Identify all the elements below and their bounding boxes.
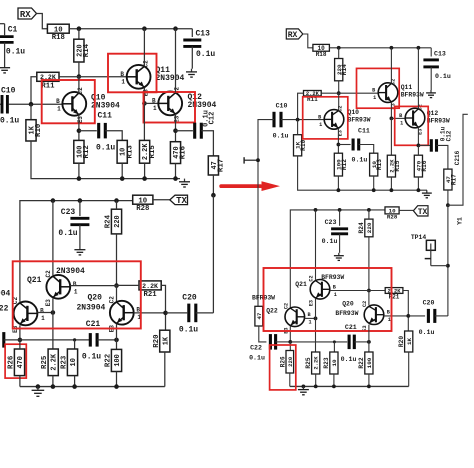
wire R25 bottom right [315,374,317,386]
resistor R13 10 right [370,153,384,176]
svg-text:1: 1 [121,78,125,85]
wire C13 ground right [430,67,432,90]
wire top rail right [329,47,431,49]
wire Q12 base right [391,117,405,119]
resistor R22 100 right [358,352,373,374]
capacitor C21 [90,333,97,347]
wire Q21 base right [330,290,369,292]
svg-text:C23: C23 [325,219,337,226]
svg-text:0.1u: 0.1u [179,326,198,335]
svg-text:C2: C2 [362,301,368,307]
junction C23 rail right [338,208,342,212]
svg-text:B: B [120,71,124,78]
svg-text:B: B [333,284,336,290]
label Q20 part [77,304,106,313]
junction TP14 node [446,264,450,268]
svg-text:C2: C2 [77,87,84,95]
svg-text:R23: R23 [323,357,330,368]
resistor R17 47 right [444,169,458,190]
svg-text:1K: 1K [406,338,413,346]
label Q21 part [56,267,85,276]
svg-text:1: 1 [309,319,312,325]
label C11 value [96,144,115,153]
wire Q20 base [134,312,166,314]
resistor R20 1K right [398,331,413,352]
svg-text:10: 10 [138,197,147,205]
svg-text:0.1u: 0.1u [419,329,435,336]
label C10 [1,87,16,96]
wire Q21 collector [52,201,54,276]
resistor R16 470 [170,142,187,164]
label Q10 right [348,109,360,116]
wire Q10 collector [78,77,80,93]
junction R23 bottom [72,384,77,389]
wire R24 top [116,201,118,210]
junction R12 gnd [77,176,82,181]
svg-text:RX: RX [20,10,31,20]
svg-text:1: 1 [57,105,61,112]
wire R26 column right [289,342,291,351]
resistor R26 470 [8,349,25,376]
svg-text:C22: C22 [250,345,262,352]
junction Q21 rail right [314,208,318,212]
label C11 right [358,128,370,135]
capacitor C10 right [274,112,281,128]
label Q11 part [156,74,185,83]
label C13 right [434,51,446,58]
svg-text:TX: TX [176,196,187,206]
transistor Q22 2N3904 [12,297,45,333]
wire Q12 collector right [417,48,419,109]
transistor Q21 BFR93W [309,275,337,306]
label C12 rotated [209,112,217,125]
svg-text:10: 10 [331,359,338,367]
red box Q12 right [395,106,429,145]
wire R24 top right [368,210,370,219]
svg-text:2.2K: 2.2K [313,356,320,370]
transistor Q22 BFR93W [283,303,311,334]
svg-text:R13: R13 [376,159,383,170]
svg-text:C2: C2 [109,296,116,304]
wire Q20 base right [384,315,409,317]
svg-text:R24: R24 [105,214,113,228]
svg-text:0.1u: 0.1u [0,117,19,126]
svg-text:B: B [40,307,44,314]
wire R22 bottom right [368,374,370,386]
label Q22 part clipped [0,290,11,299]
svg-text:E3: E3 [309,300,315,306]
wire R25 bottom [52,376,54,387]
svg-text:R22: R22 [105,354,113,367]
capacitor C23 [79,201,81,216]
svg-text:R12: R12 [341,159,348,170]
svg-text:C2: C2 [174,87,181,95]
wire C20 right side [435,315,448,317]
junction Q21 emitter node [51,310,56,315]
resistor R12 100 [74,140,91,163]
capacitor C22 clipped [0,332,4,348]
label C11 value right [352,157,368,164]
svg-text:R22: R22 [358,357,365,368]
resistor R15 2.2K right [387,155,401,177]
label C13 value right [435,73,451,80]
wire Q11 collector right [390,48,392,84]
wire R14 bottom right [338,81,340,93]
label C23 value [58,229,77,238]
capacitor C11 right [338,144,350,146]
label C13 value [196,50,215,59]
svg-text:47: 47 [256,312,263,320]
wire mid row right [290,341,347,343]
wire R12 gnd right [337,176,339,190]
svg-text:C21: C21 [345,324,357,331]
junction R23 tap right [333,340,336,343]
wire R21 left right [369,290,385,292]
label Q10 [91,94,106,103]
wire R26 bottom [19,376,21,387]
junction Q11 rail right [390,46,394,50]
svg-text:B: B [387,310,390,316]
junction output node [211,193,216,198]
label C1 value [6,48,25,57]
red box Q10 [42,80,95,123]
wire Q22 emitter [19,325,21,340]
wire Q12 collector [175,29,177,93]
wire R24 to node [116,234,118,286]
svg-text:220: 220 [114,215,122,227]
capacitor C10 [0,103,1,105]
label Q12 [188,93,203,102]
svg-text:C2: C2 [142,60,149,68]
wire R11 left down [298,93,304,119]
svg-text:C12: C12 [446,130,453,141]
wire C20 right [196,312,214,314]
resistor R28 10 right [385,207,399,221]
transistor Q12 BFR93W [399,104,425,135]
label C12 value rotated [203,110,211,127]
junction Q10 emitter node [77,128,82,133]
svg-text:R25: R25 [305,357,312,368]
resistor R18 10 right [313,44,330,58]
junction gnd bottom right [302,385,306,389]
wire Q21 base [70,285,116,287]
resistor R17 47 [208,156,225,175]
label C13 [196,30,211,39]
transistor Q10 2N3904 [56,87,86,123]
wire Q11 emitter right [390,102,392,119]
svg-text:100: 100 [366,357,373,368]
svg-text:B: B [73,281,77,288]
junction R25 bottom right [314,385,318,389]
svg-text:R18: R18 [316,51,327,58]
capacitor C20 right [408,315,425,317]
red box R26 [5,344,26,378]
red box Q11 right [357,68,400,108]
wire Q21 emitter [52,298,54,312]
wire C12 to R17 right [437,145,448,169]
resistor R14 220 right [335,59,349,81]
lower rail right [290,210,385,308]
wire mid row to C21 [20,339,90,341]
svg-text:220: 220 [287,356,294,367]
junction Q20 emitter node [114,338,119,343]
svg-text:C2: C2 [45,270,52,278]
svg-text:C10: C10 [276,103,288,110]
label Q11 right [401,84,413,91]
label C11 [98,112,113,121]
wire C1 to ground [4,42,6,64]
svg-text:E3: E3 [45,299,52,307]
wire Q12 emitter right [417,127,419,145]
svg-text:R16: R16 [180,145,188,159]
wire R13 gnd right [373,176,375,190]
red box Q10 right [303,97,348,139]
label Y1 rotated [457,217,464,225]
wire antenna stub [244,159,258,161]
label C1 [8,26,18,35]
wire R23 top [74,340,76,349]
wire R14 column [78,29,80,40]
svg-text:R23: R23 [61,355,69,369]
junction Q21 emitter node right [314,317,318,321]
resistor R11 2.2K right [304,91,322,103]
ground C23 [74,247,85,255]
ground C13 right [426,90,436,98]
svg-text:C20: C20 [182,294,197,303]
wire Q22 emitter right [289,326,291,342]
ground bottom left [32,387,45,397]
svg-text:R14: R14 [341,64,348,75]
svg-text:C11: C11 [98,112,113,121]
svg-text:0.1u: 0.1u [249,355,265,362]
junction Q12 emitter node [173,128,178,133]
svg-text:B: B [308,312,311,318]
label Q20 right [342,300,354,307]
svg-text:0.1u: 0.1u [352,157,368,164]
junction R14 rail right [337,46,341,50]
svg-text:BFR93W: BFR93W [348,116,371,123]
svg-text:220: 220 [366,222,373,233]
label C10 value right [273,133,289,140]
svg-text:2N3904: 2N3904 [156,74,185,83]
wire R17 down [212,175,214,195]
junction Q20 emitter node right [367,340,371,344]
svg-text:R13: R13 [126,145,134,159]
svg-text:R10: R10 [35,123,43,137]
stub tick [243,157,245,163]
resistor R21 2.2K [139,281,161,299]
wire C11 to R13 [105,131,122,141]
wire R22 top [116,340,118,350]
label C21 value right [341,356,357,363]
wire R13 ground [121,163,123,178]
wire node to R10 [30,104,32,120]
svg-text:C216: C216 [454,150,461,165]
wire C12 to R17 [201,131,213,156]
ground bottom right [298,386,309,394]
wire Q20 emitter right [368,325,370,342]
capacitor C22 right [270,334,275,350]
capacitor C20 [166,312,188,314]
junction node R11/R14 [77,74,82,79]
label Q22 part right [252,294,275,301]
label Q22 right [266,308,278,315]
wire R15 column right [390,118,392,155]
junction node R24/R21 right [367,289,371,293]
svg-text:R10: R10 [300,139,307,150]
bottom rail left [20,386,165,388]
svg-text:C12: C12 [209,112,217,125]
wire R23 bottom [74,376,76,387]
wire output branch bracket [448,114,468,205]
svg-text:470: 470 [17,356,25,368]
capacitor C12 right [418,144,431,146]
svg-text:C2: C2 [283,303,289,309]
resistor R11 2.2K [37,72,59,90]
label C21 [86,320,101,329]
svg-text:100: 100 [114,354,122,366]
label C23 right [325,219,337,226]
svg-text:0.1u: 0.1u [273,133,289,140]
wire R14 to node [78,62,80,77]
label C216 rotated [454,150,461,165]
wire R21 left [117,284,140,286]
label Q12 part [188,101,217,110]
svg-text:C1: C1 [8,26,18,35]
svg-text:1: 1 [41,315,45,322]
label C12 rotated right [446,130,453,141]
svg-text:R15: R15 [149,145,157,159]
svg-text:TP14: TP14 [411,234,427,241]
wire R10 top right [297,120,299,135]
svg-text:R17: R17 [450,174,457,185]
junction R22 bottom [114,384,119,389]
junction R24/R21/Q20C node [114,283,119,288]
svg-text:B: B [318,114,321,120]
svg-text:R28: R28 [136,205,149,213]
wire R15 column [143,103,145,140]
red box lower left [13,261,141,328]
capacitor C13 right [430,48,432,57]
svg-text:0.1u: 0.1u [6,48,25,57]
junction Q12 collector rail [173,26,178,31]
svg-text:1: 1 [373,95,376,101]
label Q22 clipped [0,305,9,314]
ground rail left [179,179,190,187]
junction R23 tap [73,338,76,341]
label C20 value right [419,329,435,336]
resistor R14 220 [74,39,91,62]
svg-text:BFR93W: BFR93W [321,274,344,281]
wire Q20 emitter [116,324,118,340]
capacitor C12 [195,123,202,139]
svg-text:0.1u: 0.1u [82,353,101,362]
junction R15 gnd right [390,188,394,192]
svg-text:Q10: Q10 [348,109,360,116]
junction R25 bottom [51,384,56,389]
svg-text:1: 1 [319,122,322,128]
wire R21 right down [403,291,408,332]
capacitor C21 right [349,335,354,350]
label C10 value [0,117,19,126]
svg-text:BFR93W: BFR93W [401,91,424,98]
svg-text:2.2K: 2.2K [142,283,158,290]
wire Q11 base [79,76,127,78]
resistor R10 1K [26,120,43,141]
svg-text:B: B [152,97,156,104]
resistor R12 100 right [334,153,348,176]
junction Q20 base node [163,311,168,316]
connector TX (left) [170,195,188,206]
wire C13 to ground [191,46,193,68]
junction gnd tap bottom [36,384,41,389]
wire C10 to base right [281,119,324,121]
label Q10 part [91,102,120,111]
resistor R20 1K [153,330,170,352]
svg-text:R25: R25 [41,355,49,369]
svg-text:1: 1 [334,292,337,298]
wire Q21 collector right [315,210,317,280]
connector TX (right) [413,206,428,217]
resistor R21 2.2K right [385,288,403,301]
resistor R28 10 [133,195,153,213]
junction Q10 base node [29,102,34,107]
svg-text:C13: C13 [196,30,211,39]
capacitor C1 [0,24,5,36]
connector RX (right) [286,29,303,40]
junction output right [446,203,450,207]
junction R13 gnd right [372,188,376,192]
ground C23 right [334,253,344,261]
wire R22 top right [368,342,370,352]
label C22 value right [249,355,265,362]
resistor R26 220 right [280,351,294,374]
junction Q12 base node [142,101,147,106]
svg-text:1: 1 [388,317,391,323]
wire R26 bottom right [289,373,291,386]
svg-text:C2: C2 [309,275,315,281]
svg-text:R11: R11 [41,82,55,90]
transistor Q11 2N3904 [120,60,150,96]
svg-text:R26: R26 [280,356,287,367]
wire emitter to C12 [176,130,193,132]
svg-text:0.1u: 0.1u [341,356,357,363]
resistor R16 470 right [414,155,428,177]
junction Q12 emitter node right [417,144,421,148]
svg-text:R20: R20 [398,336,405,347]
bottom rail right [290,385,409,387]
svg-text:R15: R15 [394,160,401,171]
transistor Q21 2N3904 [45,270,78,306]
label Q21 part right [321,274,344,281]
wire R26 top [19,340,21,349]
wire C22 right side [276,341,291,343]
wire R17 down right [447,190,449,205]
junction R12 gnd right [337,188,341,192]
wire R10 ground right [298,156,427,190]
wire lower rail top [20,201,133,302]
junction Q11 collector rail [142,26,147,31]
wire C10 left column [258,120,274,307]
resistor R23 10 right [323,352,338,374]
wire Q11 emitter [143,88,145,104]
ground C13 [186,69,197,77]
svg-text:Q20: Q20 [342,300,354,307]
resistor R24 220 right [358,219,373,237]
resistor R10 1K right [294,135,308,156]
wire R14 top right [338,48,340,59]
svg-text:0.1u: 0.1u [196,50,215,59]
